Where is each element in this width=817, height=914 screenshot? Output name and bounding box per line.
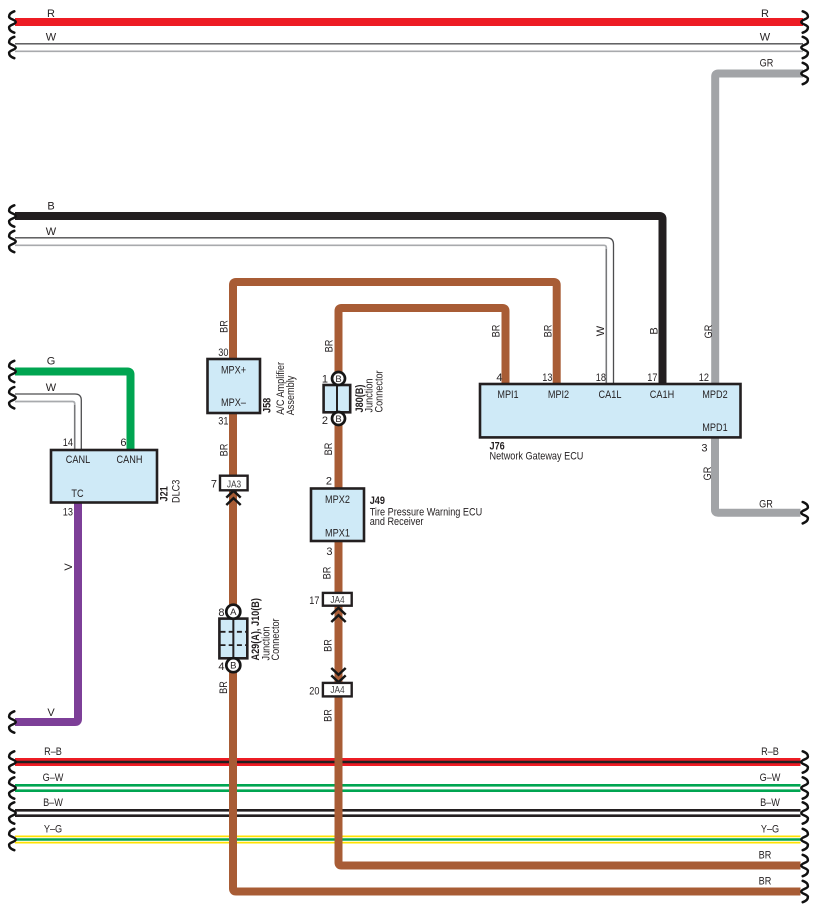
svg-text:B–W: B–W xyxy=(760,797,780,809)
svg-text:W: W xyxy=(760,32,771,44)
svg-text:BR: BR xyxy=(322,567,334,580)
svg-text:20: 20 xyxy=(309,686,319,698)
svg-text:G–W: G–W xyxy=(43,772,64,784)
svg-text:2: 2 xyxy=(322,415,328,427)
svg-text:BR: BR xyxy=(543,325,555,338)
svg-text:J58: J58 xyxy=(262,398,274,413)
svg-text:JA3: JA3 xyxy=(227,479,242,490)
svg-text:A: A xyxy=(230,607,237,618)
svg-text:J49: J49 xyxy=(370,495,385,507)
svg-text:V: V xyxy=(47,707,55,719)
svg-text:W: W xyxy=(46,226,57,238)
svg-text:W: W xyxy=(46,382,57,394)
svg-text:17: 17 xyxy=(647,372,657,384)
svg-text:B: B xyxy=(47,201,54,213)
svg-text:W: W xyxy=(46,32,57,44)
svg-text:B: B xyxy=(335,414,341,425)
svg-text:BR: BR xyxy=(759,850,772,862)
svg-text:V: V xyxy=(63,563,75,571)
svg-text:TC: TC xyxy=(71,488,83,500)
svg-text:18: 18 xyxy=(596,372,606,384)
svg-text:CA1L: CA1L xyxy=(599,389,622,401)
svg-text:MPD2: MPD2 xyxy=(702,389,727,401)
svg-text:31: 31 xyxy=(218,416,228,428)
svg-text:Connector: Connector xyxy=(270,618,282,660)
svg-text:GR: GR xyxy=(703,325,715,339)
svg-text:13: 13 xyxy=(63,507,73,519)
svg-text:J21: J21 xyxy=(159,486,171,501)
svg-text:BR: BR xyxy=(323,709,335,722)
svg-text:G: G xyxy=(47,356,56,368)
svg-text:MPX+: MPX+ xyxy=(221,365,246,377)
svg-text:JA4: JA4 xyxy=(330,685,345,696)
svg-text:8: 8 xyxy=(218,607,224,619)
svg-text:Assembly: Assembly xyxy=(285,375,297,415)
svg-text:B: B xyxy=(335,374,341,385)
svg-text:R–B: R–B xyxy=(44,746,62,758)
svg-text:GR: GR xyxy=(759,499,773,511)
svg-text:and Receiver: and Receiver xyxy=(370,516,424,528)
svg-text:14: 14 xyxy=(63,437,73,449)
svg-text:BR: BR xyxy=(323,443,335,456)
svg-text:BR: BR xyxy=(219,444,231,457)
svg-text:2: 2 xyxy=(326,476,332,488)
svg-text:6: 6 xyxy=(120,437,126,449)
svg-text:BR: BR xyxy=(759,876,772,888)
svg-text:13: 13 xyxy=(542,372,552,384)
svg-text:4: 4 xyxy=(496,372,502,384)
svg-text:7: 7 xyxy=(211,479,217,491)
svg-text:30: 30 xyxy=(218,347,228,359)
svg-text:R: R xyxy=(47,8,55,20)
svg-text:MPX1: MPX1 xyxy=(325,528,350,540)
svg-text:MPX–: MPX– xyxy=(221,397,247,409)
svg-text:BR: BR xyxy=(219,320,231,333)
svg-text:JA4: JA4 xyxy=(330,595,345,606)
svg-text:Y–G: Y–G xyxy=(44,824,62,836)
svg-text:MPX2: MPX2 xyxy=(325,494,350,506)
svg-text:BR: BR xyxy=(218,681,230,694)
svg-text:3: 3 xyxy=(701,443,707,455)
svg-text:R–B: R–B xyxy=(761,746,779,758)
svg-text:3: 3 xyxy=(326,546,332,558)
svg-text:CANH: CANH xyxy=(117,454,143,466)
svg-text:R: R xyxy=(761,8,769,20)
svg-text:4: 4 xyxy=(218,661,224,673)
svg-text:12: 12 xyxy=(699,372,709,384)
svg-text:GR: GR xyxy=(702,467,714,481)
svg-text:BR: BR xyxy=(323,639,335,652)
svg-text:Network Gateway ECU: Network Gateway ECU xyxy=(490,451,584,463)
svg-text:B: B xyxy=(230,661,236,672)
svg-text:GR: GR xyxy=(760,58,774,70)
svg-text:Connector: Connector xyxy=(374,370,386,412)
svg-text:G–W: G–W xyxy=(760,772,781,784)
svg-text:MPI2: MPI2 xyxy=(548,389,569,401)
svg-text:CANL: CANL xyxy=(66,454,90,466)
svg-text:B–W: B–W xyxy=(43,797,63,809)
svg-text:1: 1 xyxy=(322,374,328,386)
svg-text:DLC3: DLC3 xyxy=(171,480,183,503)
svg-text:MPI1: MPI1 xyxy=(497,389,518,401)
svg-text:BR: BR xyxy=(491,325,503,338)
svg-text:CA1H: CA1H xyxy=(650,389,674,401)
svg-text:17: 17 xyxy=(309,595,319,607)
svg-text:W: W xyxy=(595,325,607,336)
svg-text:Y–G: Y–G xyxy=(761,824,779,836)
svg-text:MPD1: MPD1 xyxy=(702,422,727,434)
svg-text:BR: BR xyxy=(324,340,336,353)
svg-text:B: B xyxy=(649,327,661,334)
